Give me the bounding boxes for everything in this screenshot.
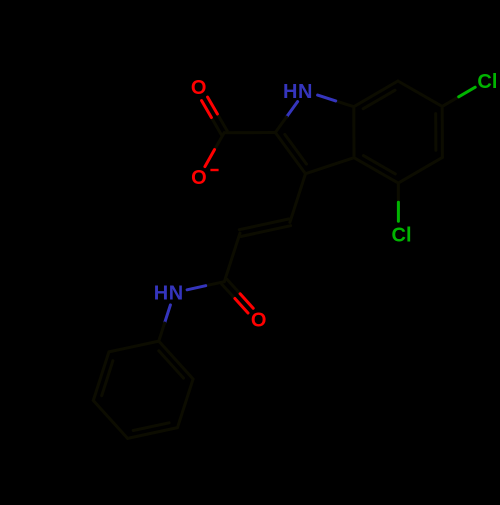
svg-text:H: H [154,283,168,305]
svg-text:N: N [298,81,312,103]
svg-text:Cl: Cl [477,71,497,93]
svg-text:Cl: Cl [392,224,412,246]
svg-text:O: O [191,77,207,99]
svg-text:N: N [169,283,183,305]
svg-text:H: H [283,81,297,103]
svg-text:O: O [251,310,267,332]
svg-text:O: O [191,167,207,189]
